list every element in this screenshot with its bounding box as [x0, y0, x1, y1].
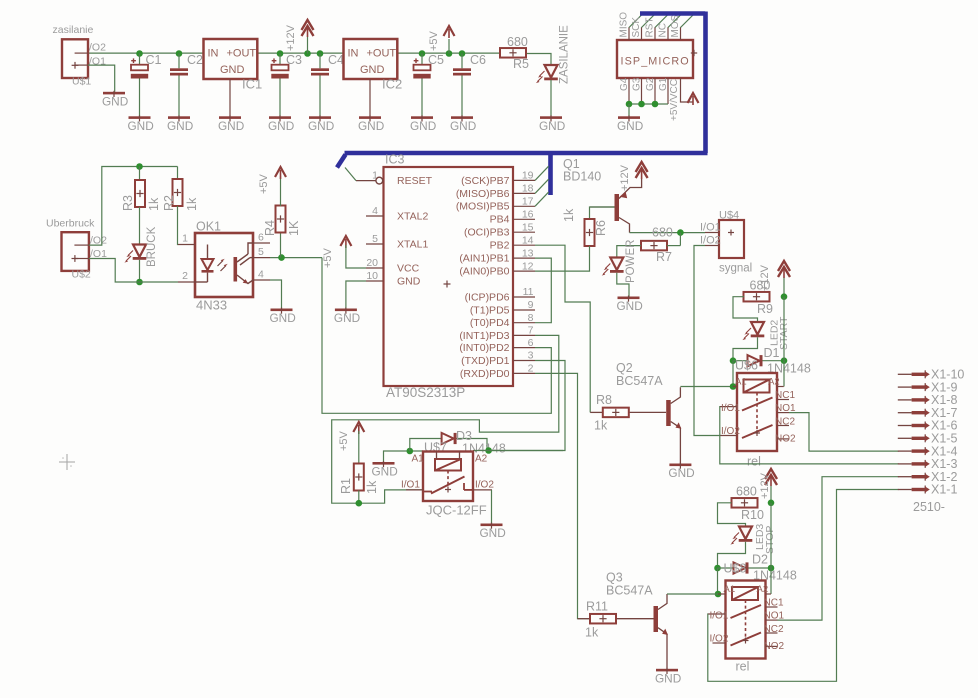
svg-text:+12V: +12V: [285, 24, 297, 51]
svg-text:GND: GND: [167, 119, 193, 133]
wire IC3 pin7 to relay feedback loop: [332, 335, 559, 503]
svg-text:+5V/VCC: +5V/VCC: [669, 79, 680, 121]
svg-text:I/O1: I/O1: [401, 480, 420, 491]
svg-text:IN: IN: [348, 48, 359, 60]
diode D3 1N4148: [424, 429, 506, 456]
junction D2 left: [714, 565, 721, 572]
pin 11 ((ICP)PD6) of IC3: [465, 286, 535, 303]
mcu IC3 AT90S2313P box: [384, 153, 514, 401]
svg-text:4: 4: [258, 269, 264, 281]
pin RST of ISP_MICRO (top): [645, 18, 656, 41]
wire IC3 pin3 to JQC A2: [489, 361, 565, 451]
wire bus entry pin17: [535, 192, 549, 206]
svg-text:+5V: +5V: [258, 173, 270, 194]
connector U$1 zasilanie: [53, 24, 107, 88]
ground below ISP_MICRO: [617, 115, 643, 133]
ground below U$1: [102, 91, 128, 109]
svg-text:680: 680: [750, 279, 771, 293]
wire +5V arrow stem: [448, 39, 450, 54]
wire R6 to IC3 pin12: [535, 246, 590, 271]
svg-text:GND: GND: [268, 119, 294, 133]
svg-text:BC547A: BC547A: [606, 584, 653, 598]
wire R7 left to POWER LED: [617, 246, 641, 258]
svg-text:GND: GND: [360, 64, 385, 76]
ground below IC2: [358, 115, 384, 133]
svg-text:GND: GND: [617, 299, 643, 313]
wire net VIN rail from U$1 to IC1: [88, 52, 204, 54]
wire stub C2 top: [178, 54, 180, 69]
capacitor C3: [271, 53, 302, 78]
svg-text:R7: R7: [656, 250, 672, 264]
wire JQC A2 row: [473, 450, 563, 452]
capacitor C1: [131, 53, 162, 78]
wire IC3 pin13 to pin8: [535, 258, 551, 323]
junction D1 left: [730, 357, 737, 364]
wire D1 row: [733, 360, 784, 362]
svg-text:Q2: Q2: [616, 361, 633, 375]
svg-text:C6: C6: [470, 53, 486, 67]
pin 20 (VCC) of IC3: [366, 257, 420, 275]
pin 4 (XTAL2) of IC3: [366, 205, 428, 223]
junction relay1 A1: [730, 383, 737, 390]
svg-text:2: 2: [182, 270, 188, 282]
svg-text:18: 18: [522, 183, 534, 195]
svg-text:1K: 1K: [287, 220, 301, 236]
wire OK1 pin4 to ground: [270, 280, 282, 309]
supply +5V arrow (top rail): [444, 26, 455, 38]
junction at C6: [459, 50, 466, 57]
svg-text:ZASILANIE: ZASILANIE: [559, 25, 571, 84]
LED3 STOP: [730, 524, 776, 554]
svg-text:VCC: VCC: [397, 263, 420, 275]
wire IC3 pin10 to ground: [346, 281, 366, 309]
pin 10 (GND) of IC3: [366, 270, 421, 288]
svg-text:X1-1: X1-1: [931, 483, 957, 497]
svg-text:C3: C3: [286, 53, 302, 67]
supply +5V arrow at IC3 VCC: [322, 236, 351, 268]
pin SCK of ISP_MICRO (top): [631, 17, 642, 40]
svg-text:9: 9: [528, 299, 534, 311]
svg-text:R8: R8: [596, 393, 612, 407]
svg-text:GND: GND: [480, 526, 506, 540]
svg-text:IC1: IC1: [242, 77, 262, 92]
wire bus entry MOS: [681, 14, 695, 28]
junction R3 top: [136, 163, 143, 170]
junction ISP G4: [626, 101, 633, 108]
wire relay1 A1 stub: [732, 361, 734, 387]
wire R6 top to Q1 base: [590, 207, 615, 219]
wire R1 bottom: [358, 490, 360, 503]
svg-text:I/O2: I/O2: [700, 235, 721, 247]
pin 6 ((INT0)PD2) of IC3: [459, 337, 535, 354]
svg-text:NC2: NC2: [764, 624, 784, 635]
resistor R11 1k: [578, 600, 617, 640]
svg-text:R9: R9: [757, 302, 773, 316]
wire OK1 pin5 node: [270, 257, 322, 259]
ground below LED POWER: [617, 296, 643, 314]
svg-text:20: 20: [366, 257, 378, 269]
wire relay2 NO1 to X1-2: [778, 477, 899, 620]
svg-text:19: 19: [522, 170, 534, 182]
svg-text:RST: RST: [645, 18, 656, 38]
ground below Q2: [668, 463, 694, 481]
svg-text:(RXD)PD0: (RXD)PD0: [460, 368, 510, 380]
junction OK1 pin5 / R4: [278, 254, 285, 261]
regulator IC2: [344, 39, 403, 92]
supply +12V arrow above relay1: [759, 261, 790, 291]
svg-text:1k: 1k: [185, 197, 199, 211]
pin 19 ((SCK)PB7) of IC3: [461, 170, 535, 187]
svg-text:ISP_MICRO: ISP_MICRO: [621, 56, 690, 68]
diode D1 1N4148: [748, 346, 811, 376]
svg-text:2: 2: [528, 363, 534, 375]
svg-text:5: 5: [258, 246, 264, 258]
junction R1 bottom: [356, 500, 363, 507]
svg-text:Q3: Q3: [606, 571, 623, 585]
pin 15 ((OCI)PB3) of IC3: [464, 221, 535, 238]
svg-text:A1: A1: [724, 584, 736, 595]
svg-text:R6: R6: [594, 220, 608, 236]
svg-text:GND: GND: [218, 119, 244, 133]
wire Q1 collector to sygnal /O1: [630, 232, 706, 234]
svg-text:Uberbruck: Uberbruck: [46, 218, 95, 230]
pin X1-9 of connector X1: [898, 380, 958, 394]
svg-text:+12V: +12V: [759, 472, 771, 499]
pin G2 of ISP_MICRO (bottom): [645, 77, 656, 104]
svg-text:GND: GND: [128, 119, 154, 133]
ground below IC1: [218, 115, 244, 133]
svg-text:G4: G4: [619, 77, 630, 91]
wire +5V to IC3 pin20: [346, 245, 366, 268]
svg-text:IN: IN: [208, 48, 219, 60]
pin 1 (RESET) of IC3: [356, 170, 433, 188]
supply +5V arrow above R1: [338, 422, 364, 451]
wire R3 top stub: [139, 167, 141, 181]
svg-text:1: 1: [372, 170, 378, 182]
wire LED POWER to ground: [617, 273, 629, 297]
resistor R8 1k: [590, 393, 629, 433]
pin X1-10 of connector X1: [898, 368, 965, 382]
svg-text:R4: R4: [263, 220, 277, 236]
wire sygnal /O2 down to relay1 I/O2: [694, 246, 720, 436]
pin X1-3 of connector X1: [898, 457, 958, 471]
transistor Q3 BC547A: [606, 571, 668, 669]
wire +12V to R10 node: [770, 486, 772, 503]
wire Q3 collector to relay2 A1: [667, 593, 718, 595]
wire net +5V rail from IC2 to R5: [397, 52, 500, 54]
junction at C1: [136, 50, 143, 57]
svg-text:I/O1: I/O1: [721, 403, 740, 414]
wire R4 bottom: [280, 232, 282, 258]
svg-text:1k: 1k: [562, 208, 576, 222]
svg-text:GND: GND: [450, 119, 476, 133]
svg-text:15: 15: [522, 221, 534, 233]
resistor R4 1k: [263, 206, 301, 237]
wire bus entry RST: [655, 14, 669, 28]
bus B1 right vertical: [703, 12, 708, 154]
supply +5V arrow at ISP: [688, 93, 699, 105]
wire +12V branch down to relay1 A2: [783, 297, 785, 387]
svg-text:POWER: POWER: [625, 240, 637, 283]
resistor R9 680: [744, 279, 774, 317]
svg-text:4: 4: [372, 205, 378, 217]
wire +12V to R9 node: [783, 278, 785, 297]
svg-text:U$6: U$6: [735, 359, 758, 373]
svg-text:GND: GND: [102, 94, 128, 108]
svg-text:XTAL1: XTAL1: [397, 239, 428, 251]
supply +12V arrow above relay2: [759, 469, 777, 499]
wire IC3 pin6 to opto node: [322, 258, 551, 414]
junction ISP G3: [638, 101, 645, 108]
svg-text:+5V: +5V: [428, 30, 440, 51]
supply +5V arrow above R4: [258, 167, 286, 194]
wire net +12V rail from IC1 to IC2: [257, 52, 343, 54]
svg-text:I/O2: I/O2: [721, 426, 740, 437]
wire ISP to ground: [628, 104, 630, 116]
svg-text:GND: GND: [334, 311, 360, 325]
wire C1 to ground: [139, 79, 141, 117]
wire from R5 to LED ZASILANIE: [526, 54, 551, 66]
optocoupler OK1 4N33: [178, 220, 270, 313]
svg-text:BC547A: BC547A: [616, 374, 663, 388]
svg-text:GND: GND: [308, 119, 334, 133]
wire relay1 I/O1 to X1-3: [720, 407, 899, 464]
wire R3 to LED BRUCK: [139, 207, 141, 245]
wire C3 to ground: [279, 79, 281, 117]
wire +12V arrow stem: [307, 37, 309, 54]
svg-text:I/O2: I/O2: [475, 480, 494, 491]
svg-text:17: 17: [522, 196, 534, 208]
svg-text:8: 8: [528, 312, 534, 324]
svg-text:SCK: SCK: [631, 17, 642, 38]
junction at +12V arrow: [304, 50, 311, 57]
ground below Q3: [655, 668, 681, 686]
svg-text:I/O2: I/O2: [710, 634, 729, 645]
diode D2 1N4148: [734, 553, 797, 583]
resistor R10 680: [732, 485, 764, 523]
svg-text:AT90S2313P: AT90S2313P: [386, 385, 465, 400]
junction D2 right: [768, 565, 775, 572]
svg-text:GND: GND: [358, 119, 384, 133]
wire R8 to Q2 base: [630, 411, 666, 413]
wire bus entry pin19: [535, 166, 549, 180]
regulator IC1: [204, 39, 263, 92]
svg-text:GND: GND: [539, 119, 565, 133]
svg-text:GND: GND: [668, 466, 694, 480]
svg-text:U$1: U$1: [72, 76, 91, 88]
wire LED ZASILANIE to ground: [550, 80, 552, 116]
wire D2 row: [718, 567, 772, 569]
pin 3 ((TXD)PD1) of IC3: [461, 350, 535, 367]
wire U$2 /O2 up and right: [89, 167, 178, 246]
wire diode D3 branch: [410, 439, 487, 452]
svg-text:G2: G2: [645, 77, 656, 91]
wire IC3 pin1 to bus entry: [345, 168, 356, 181]
pin G4 of ISP_MICRO (bottom): [619, 77, 630, 104]
svg-text:1k: 1k: [147, 197, 161, 211]
wire LED3 to D2 row: [718, 542, 746, 568]
svg-text:STOP: STOP: [764, 526, 776, 554]
svg-text:NO2: NO2: [764, 641, 785, 652]
svg-text:2510-: 2510-: [913, 500, 945, 514]
ground below IC3 pin10: [334, 308, 360, 326]
junction D1 right: [781, 357, 788, 364]
resistor R1 1k: [339, 464, 379, 495]
svg-text:6: 6: [528, 337, 534, 349]
pin 13 ((AIN1)PB1) of IC3: [459, 247, 535, 264]
svg-text:(MOSI)PB5: (MOSI)PB5: [456, 201, 510, 213]
svg-text:C5: C5: [428, 53, 444, 67]
svg-text:rel: rel: [736, 660, 750, 674]
svg-text:C2: C2: [187, 53, 203, 67]
svg-text:3: 3: [528, 350, 534, 362]
svg-text:rel: rel: [747, 455, 761, 469]
svg-text:1k: 1k: [594, 419, 608, 433]
junction at C5: [419, 50, 426, 57]
pin 12 ((AIN0)PB0) of IC3: [459, 260, 535, 277]
svg-text:GND: GND: [397, 276, 421, 288]
svg-text:IC2: IC2: [382, 77, 402, 92]
wire Q2 collector to relay1 A1: [680, 386, 733, 388]
svg-text:12: 12: [522, 260, 534, 272]
pin MISO of ISP_MICRO (top): [619, 12, 630, 40]
wire R10 left chain to LED3: [718, 503, 746, 527]
svg-text:(INT0)PD2: (INT0)PD2: [459, 342, 509, 354]
wire C4 to ground: [319, 76, 321, 117]
pin X1-1 of connector X1: [898, 483, 958, 497]
ground below C5: [410, 115, 436, 133]
sheet marker cross: [59, 454, 75, 470]
svg-text:1k: 1k: [585, 626, 599, 640]
svg-text:MISO: MISO: [619, 12, 630, 38]
svg-text:G1: G1: [658, 77, 669, 91]
svg-text:A2: A2: [768, 377, 780, 388]
relay U$8 rel (lower): [708, 562, 785, 674]
wire bus entry pin18: [535, 179, 549, 193]
svg-text:OK1: OK1: [196, 220, 221, 234]
svg-text:G3: G3: [632, 77, 643, 91]
pin 16 (PB4) of IC3: [490, 209, 535, 226]
svg-text:R5: R5: [513, 57, 529, 71]
junction at C2: [176, 50, 183, 57]
pin G1 of ISP_MICRO (bottom): [658, 77, 669, 104]
pin G3 of ISP_MICRO (bottom): [632, 77, 643, 104]
svg-text:16: 16: [522, 209, 534, 221]
transistor Q2 BC547A: [616, 361, 681, 464]
svg-text:NC: NC: [658, 23, 669, 37]
svg-text:MOS: MOS: [670, 14, 681, 37]
bus B1 middle horizontal: [345, 151, 708, 156]
ground below C2: [167, 115, 193, 133]
svg-text:GND: GND: [655, 671, 681, 685]
svg-text:IC3: IC3: [385, 153, 405, 167]
supply +12V arrow (top rail): [302, 20, 314, 37]
wire stub C5 top: [421, 54, 423, 65]
pin 18 ((MISO)PB6) of IC3: [456, 183, 535, 200]
resistor R3 1k: [121, 180, 161, 211]
wire C6 to ground: [461, 76, 463, 117]
svg-text:PB2: PB2: [490, 240, 510, 252]
resistor R6 1k: [562, 208, 608, 246]
svg-text:PB4: PB4: [490, 214, 510, 226]
wire U$1 /O1 to ground: [88, 65, 115, 92]
ground below JQC I/O2: [480, 523, 506, 541]
svg-text:11: 11: [523, 286, 534, 298]
wire bus entry SCK: [642, 14, 656, 28]
wire R9 left chain to LED2: [733, 297, 758, 322]
svg-text:GND: GND: [270, 311, 296, 325]
bus B2 vertical at IC3 right: [548, 153, 553, 195]
connector U$4 sygnal: [700, 210, 752, 275]
wire LED BRUCK to node: [139, 260, 141, 282]
svg-text:(AIN1)PB1: (AIN1)PB1: [459, 253, 509, 265]
wire relay1 NO1 to X1-4: [789, 413, 899, 452]
wire bus entry MISO: [629, 14, 643, 28]
svg-text:GND: GND: [410, 119, 436, 133]
wire R7 right up: [679, 233, 681, 246]
svg-text:/O2: /O2: [89, 42, 106, 54]
svg-text:10: 10: [366, 270, 378, 282]
wire ISP ground tie: [629, 103, 668, 105]
svg-text:U$2: U$2: [72, 268, 91, 280]
junction at C4: [317, 50, 324, 57]
svg-text:zasilanie: zasilanie: [53, 24, 94, 36]
junction at +5V arrow: [446, 50, 453, 57]
svg-text:C1: C1: [146, 53, 162, 67]
svg-text:+OUT: +OUT: [367, 48, 397, 60]
svg-text:(AIN0)PB0: (AIN0)PB0: [459, 266, 509, 278]
wire +5V to R1: [358, 431, 360, 464]
resistor R7 680: [641, 226, 673, 265]
svg-text:NC2: NC2: [775, 417, 795, 428]
pin 14 (PB2) of IC3: [490, 234, 535, 251]
wire relay2 A1 stub: [717, 568, 719, 594]
pin 5 (XTAL1) of IC3: [366, 233, 428, 251]
svg-text:RESET: RESET: [397, 175, 433, 187]
wire stub C3 top: [279, 54, 281, 65]
wire +12V branch down to relay2 A2: [770, 503, 772, 594]
svg-text:R1: R1: [339, 478, 353, 494]
ground below C3: [268, 115, 294, 133]
junction LED BRUCK bottom: [136, 279, 143, 286]
wire U$2 /O1 to OK1 pin2: [89, 259, 178, 283]
ground below C6: [450, 115, 476, 133]
wire C5 to ground: [421, 79, 423, 117]
svg-text:(TXD)PD1: (TXD)PD1: [461, 355, 510, 367]
pin +5V/VCC of ISP_MICRO: [669, 78, 693, 121]
wire stub C6 top: [461, 54, 463, 69]
svg-text:+5V: +5V: [338, 430, 350, 451]
svg-text:D1: D1: [764, 346, 780, 360]
ground below C1: [128, 115, 154, 133]
wire C2 to ground: [178, 76, 180, 117]
junction ISP G2: [652, 101, 659, 108]
wire LED2 to D1 row: [733, 337, 758, 360]
wire IC3 pin2 to R11: [535, 373, 589, 618]
wire JQC I/O2 to ground: [491, 490, 493, 524]
wire bus entry NC: [668, 14, 682, 28]
pin X1-4 of connector X1: [898, 444, 958, 458]
svg-text:BRUCK: BRUCK: [146, 226, 158, 267]
wire R4 to +5V: [280, 176, 282, 206]
svg-text:(INT1)PD3: (INT1)PD3: [459, 330, 509, 342]
wire stub C4 top: [319, 54, 321, 69]
wire R11 to Q3 base: [617, 618, 654, 620]
supply +12V arrow at Q1 emitter: [636, 162, 648, 179]
svg-text:BD140: BD140: [563, 170, 601, 184]
resistor R2 1k: [162, 179, 199, 211]
bus B1 left diagonal end: [337, 155, 346, 168]
